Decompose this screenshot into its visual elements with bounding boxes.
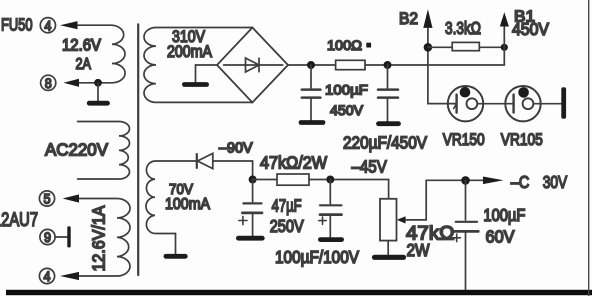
regulator tube VR150	[448, 86, 483, 121]
bridge diode cathode bar	[258, 58, 260, 72]
wire -C output line	[426, 179, 483, 181]
asterisk square mark	[366, 43, 371, 48]
junction dot -C node	[461, 176, 470, 185]
svg-text:100µF: 100µF	[325, 82, 368, 98]
VR105 anode dot	[518, 87, 529, 98]
svg-text:–45V: –45V	[352, 156, 387, 176]
potentiometer 47k 2W	[380, 199, 397, 241]
svg-text:100µF: 100µF	[483, 205, 525, 225]
junction dot -90V node	[249, 176, 257, 184]
regulator tube VR105	[505, 86, 540, 121]
svg-text:–C: –C	[511, 172, 530, 192]
svg-text:3.3kΩ: 3.3kΩ	[445, 18, 481, 38]
wire between tubes	[478, 103, 514, 105]
transformer core	[137, 24, 139, 275]
svg-text:47µF: 47µF	[272, 195, 302, 215]
terminal circle 5	[39, 191, 54, 206]
ground G4 bar	[301, 120, 323, 125]
wire from terminal 9	[55, 236, 67, 238]
diode D1 cathode bar	[196, 154, 198, 168]
wire 3.3k right lead	[479, 46, 504, 48]
VR150 cathode circle	[467, 98, 478, 109]
terminal 9 bar	[67, 226, 70, 247]
resistor 47k/2W	[277, 174, 309, 185]
svg-text:VR150: VR150	[443, 130, 485, 149]
bridge diode line	[224, 64, 283, 66]
bridge rectifier	[217, 28, 288, 103]
resistor 100 ohm	[336, 60, 365, 69]
plus sign 47uF	[239, 216, 247, 224]
resistor 3.3k	[452, 42, 479, 50]
wire 47k left lead	[253, 179, 277, 181]
wire B2 vertical	[428, 28, 457, 104]
svg-text:450V: 450V	[330, 103, 364, 119]
capacitor 100uF/60V	[465, 180, 467, 220]
junction node J2	[307, 61, 315, 69]
terminal circle 4 bottom	[39, 268, 54, 283]
winding AC220V primary	[78, 122, 130, 180]
svg-text:220µF/450V: 220µF/450V	[343, 132, 427, 152]
ground G1 stem	[97, 83, 99, 101]
wire diode to -90V node	[213, 161, 253, 180]
VR150 electrode	[455, 95, 457, 113]
junction dot B2/3.3k	[424, 43, 433, 52]
capacitor 100uF/450V	[310, 65, 312, 88]
svg-text:12AU7: 12AU7	[0, 210, 38, 231]
svg-text:2W: 2W	[407, 240, 430, 260]
svg-text:60V: 60V	[486, 227, 515, 247]
svg-text:200mA: 200mA	[167, 43, 212, 61]
capacitor 220uF/450V	[387, 65, 389, 88]
diode D1 triangle	[198, 153, 213, 168]
wire VR105 to terminal	[533, 103, 561, 105]
svg-text:8: 8	[45, 76, 52, 92]
wire B+ rail	[288, 64, 504, 66]
page border right line	[588, 0, 589, 296]
ground G9 bar	[375, 255, 404, 260]
svg-text:B2: B2	[399, 10, 418, 28]
wire bridge minus to ground	[196, 65, 218, 82]
winding 70V secondary	[146, 161, 196, 234]
junction dot B1	[501, 44, 508, 51]
svg-text:5: 5	[44, 192, 51, 208]
junction dot on winding return	[94, 79, 102, 87]
winding 310V secondary	[144, 28, 253, 103]
ground G6 bar	[166, 254, 185, 259]
pot bottom stem	[387, 241, 389, 255]
svg-text:47kΩ/2W: 47kΩ/2W	[260, 153, 327, 173]
svg-text:100mA: 100mA	[165, 196, 210, 213]
svg-text:12.6V: 12.6V	[62, 36, 101, 54]
svg-text:450V: 450V	[512, 20, 550, 39]
svg-text:12.6V/1A: 12.6V/1A	[89, 205, 109, 271]
svg-text:–90V: –90V	[219, 140, 253, 156]
node B1 arrow	[500, 12, 509, 26]
node B2 arrow	[423, 9, 432, 28]
winding 12.6V/1A primary	[79, 199, 130, 277]
terminal circle 4 top	[40, 18, 55, 33]
capacitor 100uF/100V	[329, 180, 331, 204]
junction node J3	[384, 61, 392, 69]
svg-text:100Ω: 100Ω	[327, 38, 362, 54]
svg-text:30V: 30V	[543, 172, 568, 192]
svg-text:VR105: VR105	[501, 130, 543, 149]
svg-text:4: 4	[44, 18, 51, 34]
wire 3.3k left lead	[428, 46, 452, 48]
page border bottom bar	[6, 290, 592, 295]
ground G7 bar	[238, 236, 262, 241]
svg-text:250V: 250V	[270, 216, 304, 236]
svg-text:2A: 2A	[76, 56, 92, 73]
plus sign 100uF/60V	[453, 234, 461, 242]
wire B1 vertical	[503, 27, 505, 66]
arrow to terminal 4 bottom	[60, 272, 79, 280]
svg-text:AC220V: AC220V	[45, 141, 109, 160]
VR150 anode dot	[460, 87, 471, 98]
wire cap 60V down	[465, 233, 467, 290]
VR105 cathode circle	[523, 98, 534, 109]
junction dot -45V node	[326, 176, 334, 184]
wire wiper to -C line	[405, 180, 426, 220]
winding 12.6V/2A primary	[77, 25, 125, 83]
ground G1 bar	[89, 101, 107, 106]
arrow -C output	[483, 177, 504, 185]
arrow to terminal 8	[64, 79, 80, 87]
svg-text:FU50: FU50	[1, 14, 33, 34]
arrow to terminal 5	[63, 194, 80, 202]
capacitor 47uF/250V	[252, 180, 254, 203]
plus sign 100uF/100V	[319, 217, 326, 224]
svg-text:4: 4	[44, 269, 51, 285]
VR105 electrode	[512, 95, 514, 113]
terminal bar right	[561, 87, 566, 119]
terminal circle 9	[40, 229, 55, 244]
ground G3 bar	[184, 82, 206, 87]
ground G8 bar	[320, 237, 341, 242]
terminal circle 8	[41, 75, 56, 90]
ground G6 stem	[175, 234, 177, 255]
VR150 electrode tick	[454, 104, 457, 109]
svg-text:9: 9	[44, 230, 51, 246]
bridge diode triangle	[246, 58, 260, 72]
arrow to terminal 4	[60, 21, 78, 29]
svg-text:100µF/100V: 100µF/100V	[275, 247, 359, 267]
ground G5 bar	[379, 121, 399, 126]
pot wiper arrow	[397, 216, 406, 223]
wire 47k right lead to -45V	[309, 180, 389, 199]
